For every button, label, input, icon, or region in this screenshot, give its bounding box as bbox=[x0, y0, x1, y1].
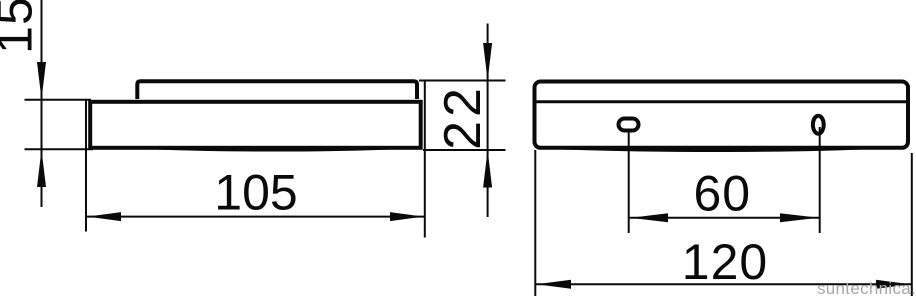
right view: top plate separation line bbox=[537, 100, 907, 103]
dim 22: upper arrow (points down) bbox=[483, 43, 492, 81]
left view: shelf body (side view) bbox=[90, 102, 421, 148]
dim 60: left arrow bbox=[630, 213, 668, 222]
dim 60: right extension line bbox=[819, 127, 821, 233]
dim 120: right extension line bbox=[911, 153, 913, 296]
dim 22: bottom extension line bbox=[423, 149, 506, 151]
svg-text:120: 120 bbox=[682, 234, 768, 290]
dim 120: left arrow bbox=[536, 280, 571, 289]
dim 105: left extension line bbox=[85, 99, 87, 232]
svg-text:15: 15 bbox=[0, 0, 43, 54]
dim 60: dimension line bbox=[629, 217, 820, 219]
dim 22: dimension line bbox=[487, 24, 489, 218]
dim 105: left arrow bbox=[88, 212, 122, 221]
right view: right mounting hole bbox=[813, 116, 824, 134]
right view: left mounting slot bbox=[619, 119, 639, 131]
left view: shelf top plate (side view) bbox=[137, 81, 417, 99]
svg-text:60: 60 bbox=[693, 165, 751, 221]
dim 60: right arrow bbox=[780, 213, 819, 222]
dim 22: top extension line bbox=[419, 80, 506, 82]
dim 120: dimension line bbox=[536, 283, 912, 285]
dim 15: top extension line bbox=[25, 99, 92, 101]
dim 15: bottom extension line bbox=[25, 148, 94, 150]
dim 15: upper arrow (points down) bbox=[37, 62, 46, 100]
left view: body bottom recess line bbox=[139, 148, 408, 151]
right view: shelf body outline (front view) bbox=[535, 82, 909, 148]
dim 120: left extension line bbox=[534, 150, 536, 296]
svg-text:suntechnica.ru: suntechnica.ru bbox=[817, 279, 916, 298]
dim 105: right extension line bbox=[424, 81, 426, 238]
dim 22: lower arrow (points up) bbox=[483, 150, 492, 188]
right view: body bottom recess line bbox=[542, 148, 878, 151]
dim 105: dimension line bbox=[86, 216, 425, 218]
dim 105: right arrow bbox=[390, 212, 423, 221]
svg-text:105: 105 bbox=[214, 165, 297, 221]
svg-text:22: 22 bbox=[434, 84, 492, 150]
dim 120: right arrow bbox=[876, 280, 911, 289]
dim 15: dimension line bbox=[41, 0, 43, 207]
dim 15: lower arrow (points up) bbox=[37, 150, 46, 188]
dim 60: left extension line bbox=[628, 133, 630, 234]
